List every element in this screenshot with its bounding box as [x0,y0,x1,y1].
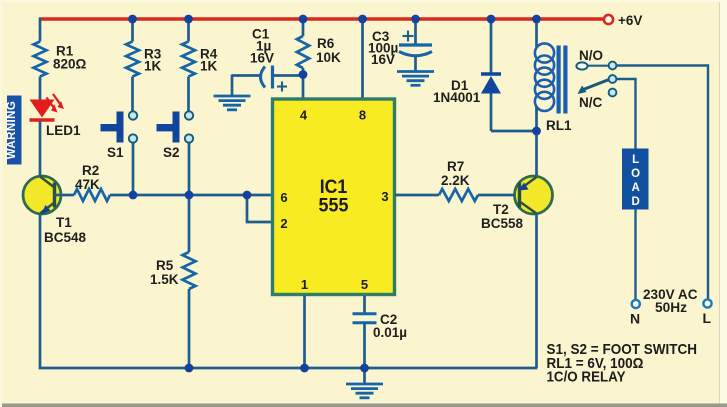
svg-text:O: O [631,168,640,180]
pin 5 [361,277,368,292]
wire pin1 to bottom rail [303,296,306,368]
wire R7 to T2 base [478,194,520,197]
wire bottom rail to ground stub [363,368,366,384]
capacitor C3 [399,19,432,71]
ground (C3) [397,72,434,86]
wire C2 to bottom rail [363,323,366,368]
label C3 100u 16V [368,29,398,67]
svg-text:50Hz: 50Hz [655,300,687,315]
relay armature (pole) [578,75,617,94]
switch S2 [157,111,194,142]
svg-text:8: 8 [359,108,366,123]
svg-text:1N4001: 1N4001 [433,90,481,105]
pin 8 [359,108,366,123]
svg-text:2: 2 [280,216,287,231]
node L terminal [703,299,711,307]
label LED1 [46,123,81,138]
svg-text:47K: 47K [75,177,100,192]
node junctions bottom rail [185,364,369,373]
label R4 1K [200,47,218,74]
wire relay junction to T2 emitter [535,131,538,177]
wire R3 to S1 [131,77,134,113]
svg-text:1.5K: 1.5K [150,272,179,287]
svg-text:R6: R6 [317,36,335,51]
pin 4 [300,108,308,123]
label +6V [618,13,642,28]
label T2 BC558 [481,202,524,231]
pin 6 [280,190,287,205]
svg-text:1K: 1K [200,59,218,74]
label N/C [579,95,603,110]
svg-text:R5: R5 [156,258,174,273]
svg-text:N/C: N/C [579,95,603,110]
svg-text:1K: 1K [144,59,162,74]
wire C1 to ground [231,75,234,96]
svg-text:5: 5 [361,277,368,292]
svg-text:A: A [631,182,639,194]
ground (main) [346,384,383,398]
label RL1 [546,118,572,133]
svg-text:16V: 16V [371,52,395,67]
svg-text:10K: 10K [316,50,341,65]
svg-text:S1: S1 [107,145,124,160]
node junction C1/R6/pin4 [299,70,308,79]
wire pole to LOAD [617,79,636,149]
transistor T1 [23,176,61,215]
svg-text:N/O: N/O [579,48,603,63]
wire LOAD to N terminal [634,210,636,301]
node N terminal [632,300,640,308]
capacitor C2 [353,314,377,323]
wire +6V red top rail [39,17,604,20]
node junctions signal line [129,191,252,200]
svg-text:T2: T2 [493,202,509,217]
svg-text:6: 6 [280,190,287,205]
ground (C1) [214,96,251,110]
svg-text:3: 3 [381,189,388,204]
wire pin2 branch [247,195,272,222]
svg-text:0.01µ: 0.01µ [373,325,407,340]
wire T1 emitter to bottom rail [39,213,42,369]
label R6 10K [316,36,341,65]
node +6V terminal [604,15,613,24]
svg-text:RL1: RL1 [546,118,572,133]
svg-text:1C/O RELAY: 1C/O RELAY [547,369,626,386]
wire R2 to pin6 junction (signal line) [110,194,272,197]
svg-text:D: D [631,196,639,208]
resistor R2 [74,189,110,201]
wire pin5 to C2 [363,296,366,313]
label S2 [163,145,180,160]
transistor T2 [515,176,553,214]
label 230V AC 50Hz [643,287,698,315]
wire R3 branch stub [131,19,134,42]
relay coil RL1 [535,19,568,131]
svg-text:820Ω: 820Ω [53,57,87,72]
pin 3 [381,189,388,204]
wire bottom ground rail [39,367,538,370]
svg-text:+6V: +6V [618,13,642,28]
label R1 820&#937; [53,44,87,72]
svg-text:R2: R2 [82,163,99,178]
wire LED1 to T1 collector [39,121,42,177]
resistor R5 [183,195,196,368]
label L [703,310,712,326]
svg-text:2.2K: 2.2K [441,173,470,188]
op-amp U1: IC1 555 timer box [273,99,395,295]
label R7 2.2K [441,159,470,188]
WARNING sign [6,96,22,165]
LOAD box [622,149,649,210]
svg-text:BC558: BC558 [481,216,524,231]
wire R1 branch top stub [39,18,42,42]
resistor R6 [297,19,309,98]
label R3 1K [144,47,162,74]
wire pin8 to rail [361,19,364,98]
label R2 47K [75,163,100,192]
wire R1 to LED1 [39,77,42,102]
node junction dots top rail [128,15,541,24]
label S1 [107,145,124,160]
label T1 BC548 [44,215,87,245]
LED LED1 [30,94,65,120]
node junction D1/RL1/T2 [532,127,541,136]
pin 1 [301,277,308,292]
label notes S1,S2 foot switch [547,341,698,386]
wire R4 to S2 [187,77,190,113]
wire pin3 to R7 [395,194,439,197]
svg-text:4: 4 [300,108,308,123]
svg-text:LED1: LED1 [46,123,81,138]
wire N/O to L terminal [617,66,709,300]
svg-text:L: L [632,154,639,166]
svg-text:1: 1 [301,277,308,292]
svg-text:16V: 16V [250,51,274,66]
svg-text:BC548: BC548 [44,230,87,245]
svg-text:T1: T1 [56,215,72,230]
relay contact N/C [609,89,617,97]
diode D1 [481,19,537,131]
svg-text:R7: R7 [447,159,464,174]
label IC1 555 [319,176,349,217]
svg-text:L: L [703,310,712,326]
wire R4 branch stub [187,19,190,42]
label D1 1N4001 [433,78,481,105]
switch S1 [101,111,138,142]
resistor R7 [439,189,478,201]
capacitor C1 [232,66,303,92]
svg-text:S2: S2 [163,145,180,160]
label N/O [579,48,603,63]
svg-text:555: 555 [319,195,349,217]
pin 2 [280,216,287,231]
resistor R1 [34,42,47,77]
label C1 1u 16V [250,27,274,66]
label C2 0.01u [373,312,407,340]
wire S2 to signal line [188,143,191,196]
label R5 1.5K [150,258,179,287]
wire T2 collector to bottom rail [535,213,538,368]
resistor R4 [182,42,195,77]
svg-text:WARNING: WARNING [6,101,18,159]
wire S1 to signal line [132,143,135,196]
svg-text:N: N [630,311,640,327]
wire T1 base to R2 [55,194,75,197]
label N [630,311,640,327]
resistor R3 [126,42,139,77]
relay contact N/O [576,62,616,70]
